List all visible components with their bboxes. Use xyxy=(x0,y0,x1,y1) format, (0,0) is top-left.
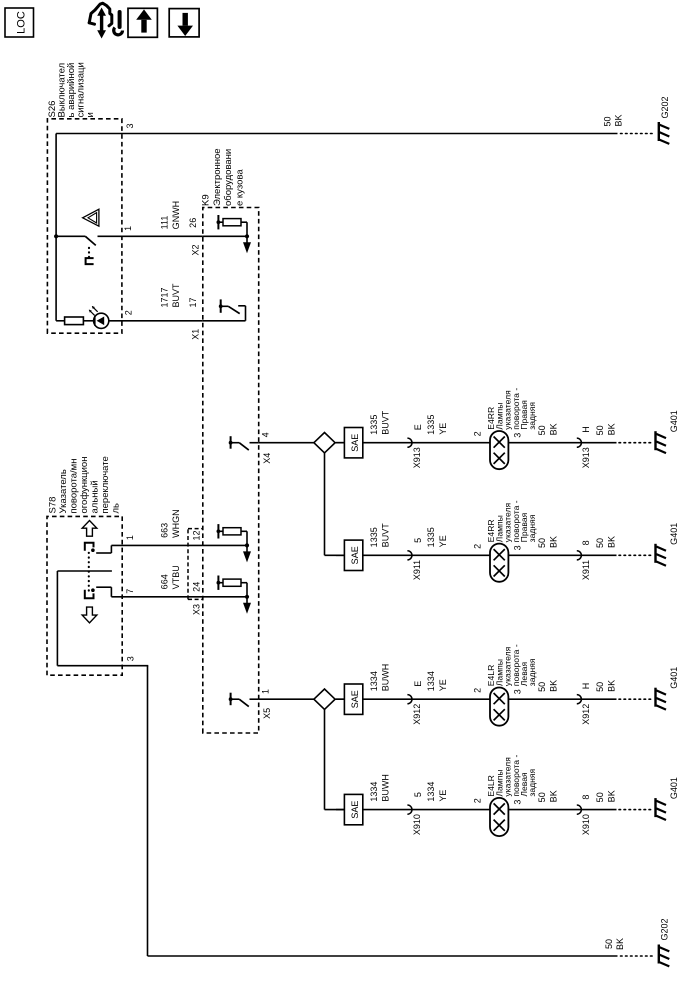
svg-text:задняя: задняя xyxy=(527,514,537,542)
svg-text:1: 1 xyxy=(125,535,135,540)
svg-text:1: 1 xyxy=(261,689,271,694)
svg-text:3: 3 xyxy=(513,545,523,550)
svg-text:7: 7 xyxy=(125,589,135,594)
svg-text:задняя: задняя xyxy=(527,768,537,796)
svg-text:H: H xyxy=(581,426,591,433)
svg-text:1334: 1334 xyxy=(426,671,436,691)
svg-text:X910: X910 xyxy=(581,814,591,835)
svg-text:оборудовани: оборудовани xyxy=(223,149,234,206)
svg-text:BUVT: BUVT xyxy=(381,523,391,548)
svg-text:BUWH: BUWH xyxy=(381,774,391,802)
svg-text:SAE: SAE xyxy=(350,801,360,819)
svg-text:2: 2 xyxy=(124,310,134,315)
svg-text:1717: 1717 xyxy=(160,287,170,307)
svg-text:3: 3 xyxy=(513,689,523,694)
svg-text:GNWH: GNWH xyxy=(171,201,181,230)
svg-text:X913: X913 xyxy=(581,447,591,468)
svg-text:4: 4 xyxy=(261,432,271,437)
svg-text:переключате: переключате xyxy=(100,456,111,513)
svg-text:и: и xyxy=(85,112,96,117)
svg-text:5: 5 xyxy=(413,538,423,543)
svg-text:BK: BK xyxy=(614,114,624,126)
svg-text:BUWH: BUWH xyxy=(381,664,391,692)
svg-text:X4: X4 xyxy=(262,453,272,464)
svg-text:E: E xyxy=(413,681,423,687)
svg-text:24: 24 xyxy=(192,582,202,592)
svg-text:сигнализаци: сигнализаци xyxy=(75,62,86,117)
svg-text:G202: G202 xyxy=(660,96,670,118)
svg-text:1: 1 xyxy=(123,226,133,231)
svg-text:BK: BK xyxy=(548,423,558,435)
svg-text:2: 2 xyxy=(472,431,482,436)
svg-text:X911: X911 xyxy=(412,560,422,580)
svg-text:17: 17 xyxy=(188,297,198,307)
svg-text:50: 50 xyxy=(595,792,605,802)
svg-text:задняя: задняя xyxy=(527,658,537,686)
svg-text:BK: BK xyxy=(548,790,558,802)
svg-text:1335: 1335 xyxy=(426,415,436,435)
svg-text:K9: K9 xyxy=(201,194,212,206)
svg-text:G401: G401 xyxy=(669,523,679,545)
svg-text:BUVT: BUVT xyxy=(381,410,391,435)
svg-text:BK: BK xyxy=(548,680,558,692)
svg-text:3: 3 xyxy=(126,656,136,661)
svg-text:X912: X912 xyxy=(581,704,591,725)
svg-text:X1: X1 xyxy=(190,329,200,340)
svg-text:663: 663 xyxy=(160,523,170,538)
svg-text:BK: BK xyxy=(615,938,625,950)
svg-text:Электронное: Электронное xyxy=(212,148,223,206)
svg-text:X2: X2 xyxy=(190,245,200,256)
svg-text:YE: YE xyxy=(438,423,448,435)
svg-text:G401: G401 xyxy=(669,667,679,689)
svg-text:50: 50 xyxy=(537,538,547,548)
svg-text:50: 50 xyxy=(537,425,547,435)
svg-text:E: E xyxy=(413,424,423,430)
svg-text:альный: альный xyxy=(89,480,100,513)
svg-text:WHGN: WHGN xyxy=(171,509,181,538)
svg-text:BK: BK xyxy=(548,536,558,548)
svg-text:1335: 1335 xyxy=(426,527,436,547)
svg-text:8: 8 xyxy=(581,540,591,545)
svg-text:BK: BK xyxy=(607,790,617,802)
svg-text:задняя: задняя xyxy=(527,402,537,430)
svg-text:1334: 1334 xyxy=(426,782,436,802)
svg-text:50: 50 xyxy=(595,538,605,548)
svg-text:50: 50 xyxy=(595,425,605,435)
svg-text:X912: X912 xyxy=(412,704,422,725)
svg-text:111: 111 xyxy=(160,216,170,230)
svg-text:YE: YE xyxy=(438,535,448,547)
svg-text:3: 3 xyxy=(513,800,523,805)
svg-text:BK: BK xyxy=(607,536,617,548)
svg-text:3: 3 xyxy=(513,433,523,438)
svg-text:26: 26 xyxy=(188,218,198,228)
svg-text:G202: G202 xyxy=(660,918,670,940)
svg-text:YE: YE xyxy=(438,790,448,802)
svg-text:X3: X3 xyxy=(192,604,202,615)
svg-text:8: 8 xyxy=(581,795,591,800)
svg-text:5: 5 xyxy=(413,792,423,797)
svg-text:X913: X913 xyxy=(412,447,422,468)
svg-text:BK: BK xyxy=(607,423,617,435)
svg-text:1334: 1334 xyxy=(369,671,379,691)
svg-text:1335: 1335 xyxy=(369,415,379,435)
svg-text:X910: X910 xyxy=(412,814,422,835)
svg-text:SAE: SAE xyxy=(350,434,360,452)
svg-text:50: 50 xyxy=(537,682,547,692)
svg-text:поворота/мн: поворота/мн xyxy=(68,459,79,514)
svg-text:огофункцион: огофункцион xyxy=(79,457,90,514)
svg-text:2: 2 xyxy=(472,544,482,549)
svg-text:664: 664 xyxy=(160,574,170,589)
svg-text:е кузова: е кузова xyxy=(235,169,246,206)
svg-text:H: H xyxy=(581,683,591,690)
svg-text:2: 2 xyxy=(472,688,482,693)
svg-text:3: 3 xyxy=(125,123,135,128)
svg-text:YE: YE xyxy=(438,679,448,691)
svg-text:50: 50 xyxy=(604,939,614,949)
svg-text:X5: X5 xyxy=(262,708,272,719)
svg-text:S78: S78 xyxy=(47,497,58,514)
svg-text:2: 2 xyxy=(472,798,482,803)
svg-text:ль: ль xyxy=(110,503,121,514)
svg-text:SAE: SAE xyxy=(350,546,360,564)
svg-text:50: 50 xyxy=(595,682,605,692)
svg-text:1334: 1334 xyxy=(369,782,379,802)
svg-text:BUVT: BUVT xyxy=(171,283,181,308)
svg-text:G401: G401 xyxy=(669,777,679,799)
svg-text:VTBU: VTBU xyxy=(171,565,181,589)
svg-text:X911: X911 xyxy=(581,560,591,580)
svg-text:50: 50 xyxy=(603,116,613,126)
svg-text:G401: G401 xyxy=(669,410,679,432)
svg-text:BK: BK xyxy=(607,680,617,692)
svg-text:1335: 1335 xyxy=(369,527,379,547)
svg-text:50: 50 xyxy=(537,792,547,802)
svg-text:12: 12 xyxy=(192,530,202,540)
svg-text:LOC: LOC xyxy=(16,11,28,34)
svg-text:Указатель: Указатель xyxy=(58,469,69,513)
svg-text:SAE: SAE xyxy=(350,690,360,708)
